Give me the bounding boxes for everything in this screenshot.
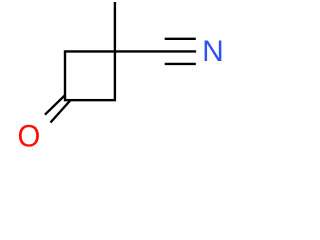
svg-text:O: O: [17, 118, 40, 150]
svg-text:N: N: [202, 35, 224, 68]
